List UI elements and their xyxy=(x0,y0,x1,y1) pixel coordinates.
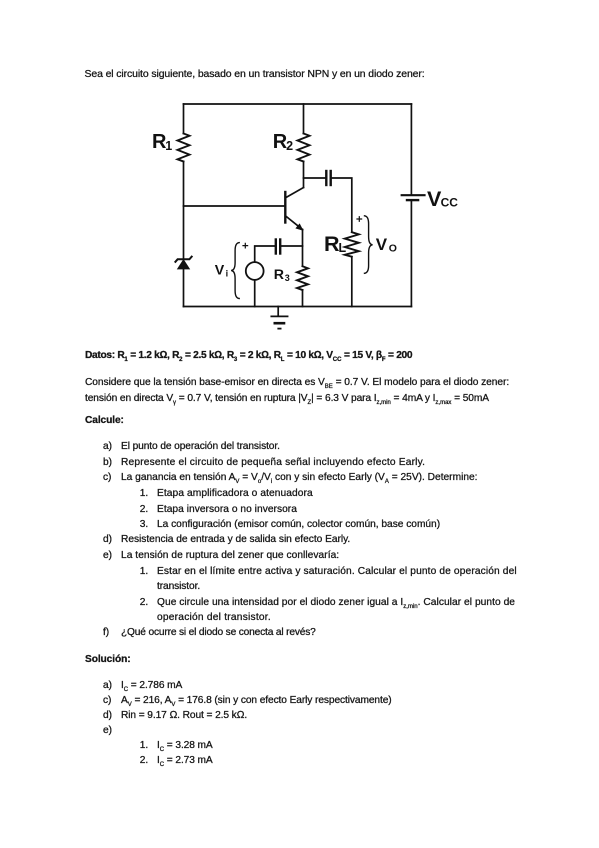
wire collector lead xyxy=(303,162,305,188)
wire capacitor C1 to Vi xyxy=(255,246,275,262)
svg-text:O: O xyxy=(389,243,397,255)
wire emitter to capacitor C1 xyxy=(282,245,303,247)
wire R2 branch upper xyxy=(303,104,305,134)
wire R3 lower xyxy=(302,290,304,307)
resistor RL xyxy=(324,232,359,257)
node VO label xyxy=(376,235,397,255)
svg-text:L: L xyxy=(339,241,347,255)
wire Vi lower xyxy=(254,280,256,307)
svg-text:3: 3 xyxy=(285,273,290,283)
considere paragraph xyxy=(85,375,509,390)
zener diode D1 xyxy=(175,257,191,269)
source Vi xyxy=(246,262,264,280)
title xyxy=(85,67,425,82)
wire left branch upper xyxy=(183,104,185,134)
svg-text:CC: CC xyxy=(441,196,459,210)
battery VCC xyxy=(402,187,459,211)
wire capacitor to RL branch xyxy=(332,178,352,232)
wire bottom rail xyxy=(184,306,412,308)
resistor R3 xyxy=(274,266,308,290)
resistor R1 xyxy=(152,131,190,162)
datos line xyxy=(85,348,412,363)
node Vi label xyxy=(215,263,228,279)
wire emitter lead xyxy=(302,230,304,267)
wire VCC branch upper xyxy=(410,104,412,194)
list a-f xyxy=(103,439,112,454)
svg-text:i: i xyxy=(226,269,229,279)
wire left branch mid xyxy=(183,162,185,260)
svg-text:V: V xyxy=(376,235,388,254)
resistor R2 xyxy=(273,131,310,162)
transistor Q1 xyxy=(285,188,303,231)
wire left branch lower xyxy=(183,269,185,307)
svg-text:V: V xyxy=(215,263,225,279)
wire RL lower xyxy=(351,257,353,307)
capacitor C2 xyxy=(326,171,330,185)
node VO plus xyxy=(357,217,362,222)
node VO brace xyxy=(365,216,373,273)
svg-text:2: 2 xyxy=(286,139,293,153)
wire top rail xyxy=(184,103,412,105)
solucion xyxy=(85,652,131,667)
ground xyxy=(271,307,287,329)
node Vi plus xyxy=(243,243,248,248)
wire base xyxy=(184,205,285,207)
svg-text:1: 1 xyxy=(165,139,172,153)
node Vi brace xyxy=(231,243,239,299)
wire VCC branch lower xyxy=(410,201,412,306)
wire collector to capacitor xyxy=(304,177,326,179)
calcule xyxy=(85,413,124,428)
capacitor C1 xyxy=(276,240,280,254)
svg-text:R: R xyxy=(274,267,284,283)
